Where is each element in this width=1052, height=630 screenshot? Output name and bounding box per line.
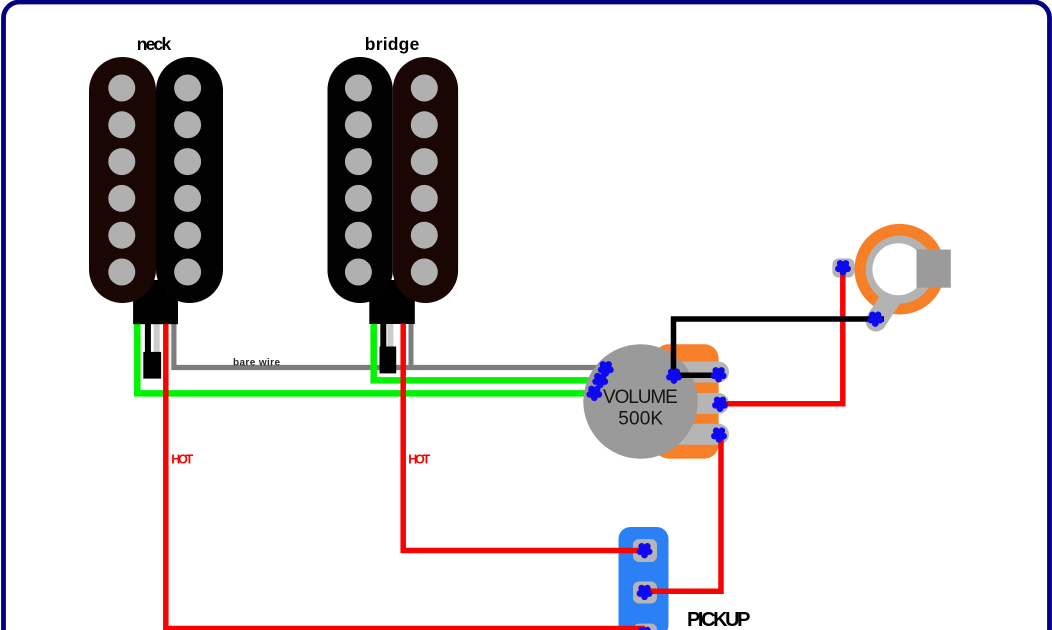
svg-text:500K: 500K (618, 409, 663, 430)
svg-text:VOLUME: VOLUME (603, 387, 678, 408)
svg-text:bare wire: bare wire (233, 357, 280, 368)
svg-text:HOT: HOT (408, 453, 430, 467)
svg-text:bridge: bridge (365, 34, 420, 54)
svg-text:PICKUP: PICKUP (687, 609, 751, 630)
svg-text:HOT: HOT (171, 453, 193, 467)
svg-text:neck: neck (137, 34, 172, 54)
